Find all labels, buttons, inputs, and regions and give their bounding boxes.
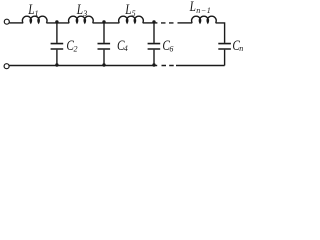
wire L3 to L5 bbox=[93, 22, 120, 24]
node dot C6 top bbox=[152, 20, 155, 23]
svg-text:L: L bbox=[189, 0, 196, 15]
svg-text:3: 3 bbox=[82, 9, 87, 18]
node dot C2 bottom bbox=[55, 63, 58, 66]
svg-text:4: 4 bbox=[124, 44, 128, 53]
node dot C2 top bbox=[55, 20, 58, 23]
inductor L5 bbox=[119, 16, 144, 23]
input terminal bottom-left bbox=[4, 64, 9, 69]
wire to L(n-1) bbox=[178, 22, 193, 24]
node dot C4 bottom bbox=[102, 63, 105, 66]
wire Ln-1 to right corner bbox=[216, 23, 225, 43]
capacitor Cn bbox=[218, 44, 231, 49]
bottom rail right bbox=[176, 65, 225, 67]
inductor Ln-1 bbox=[192, 16, 217, 23]
dashed continuation bottom rail bbox=[162, 65, 174, 67]
capacitor C2 bbox=[56, 23, 58, 43]
svg-text:5: 5 bbox=[132, 9, 136, 18]
svg-text:6: 6 bbox=[169, 44, 173, 53]
wire L1 to L3 bbox=[46, 22, 69, 24]
svg-text:1: 1 bbox=[34, 8, 38, 18]
svg-text:2: 2 bbox=[74, 44, 78, 53]
wire top-left bbox=[9, 22, 23, 24]
svg-text:L: L bbox=[76, 1, 83, 18]
bottom rail bbox=[9, 65, 157, 67]
svg-text:n−1: n−1 bbox=[196, 6, 211, 15]
svg-text:n: n bbox=[239, 44, 243, 53]
node dot C6 bottom bbox=[152, 63, 155, 66]
svg-text:L: L bbox=[124, 0, 131, 17]
wire L5 to node C6 bbox=[143, 22, 158, 24]
inductor L1 bbox=[22, 16, 47, 23]
capacitor C6 bbox=[153, 23, 155, 43]
capacitor C4 bbox=[103, 23, 105, 43]
dashed continuation top rail bbox=[161, 22, 174, 24]
input terminal top-left bbox=[4, 19, 9, 24]
node dot C4 top bbox=[102, 20, 105, 23]
inductor L3 bbox=[69, 16, 94, 23]
